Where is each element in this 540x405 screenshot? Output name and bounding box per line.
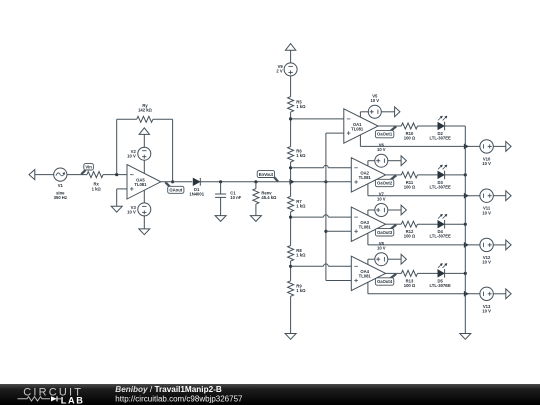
source V5 <box>368 105 381 118</box>
ground <box>139 229 150 235</box>
wire <box>290 162 292 196</box>
wire <box>290 112 292 146</box>
wire OA3 noninverting <box>326 230 351 232</box>
svg-text:LTL-307EE: LTL-307EE <box>430 136 452 141</box>
wire <box>153 118 173 120</box>
wire OA1 noninverting to bus <box>326 132 344 134</box>
node flag Vin <box>81 170 85 174</box>
wire <box>445 272 466 274</box>
source V11 <box>480 189 493 202</box>
wire OA3 V- pin <box>367 233 369 245</box>
wire <box>117 118 137 120</box>
resistor Rx <box>87 172 103 178</box>
svg-text:TL081: TL081 <box>359 175 372 180</box>
source V8 <box>375 253 388 266</box>
ground <box>250 216 261 222</box>
svg-text:V1: V1 <box>58 183 64 188</box>
svg-text:100 Ω: 100 Ω <box>404 283 416 288</box>
svg-text:1 kΩ: 1 kΩ <box>296 253 306 258</box>
LED D2 <box>438 122 445 129</box>
power flag V7 <box>401 205 406 215</box>
wire <box>493 145 506 147</box>
svg-text:10 V: 10 V <box>482 161 491 166</box>
svg-text:10 V: 10 V <box>377 196 386 201</box>
wire OA4 output <box>386 272 402 274</box>
power flag up V9 <box>285 44 295 51</box>
svg-text:142 kΩ: 142 kΩ <box>138 108 152 113</box>
wire <box>445 174 466 176</box>
wire <box>418 223 438 225</box>
wire <box>388 258 401 260</box>
svg-text:OAout: OAout <box>169 187 182 192</box>
node junction Renv <box>254 180 257 183</box>
wire <box>493 195 506 197</box>
svg-text:TL081: TL081 <box>134 182 147 187</box>
svg-text:45.4 kΩ: 45.4 kΩ <box>261 195 277 200</box>
wire <box>67 174 87 176</box>
wire <box>388 160 401 162</box>
wire <box>290 50 292 63</box>
source V13 <box>480 287 493 300</box>
power flag V10 <box>506 142 511 152</box>
source V12 <box>480 238 493 251</box>
svg-text:100 Ω: 100 Ω <box>404 234 416 239</box>
resistor R8 <box>288 246 294 261</box>
capacitor C1 <box>220 182 222 194</box>
LED D5 <box>438 270 445 277</box>
wire <box>143 134 145 147</box>
node junction <box>289 166 292 169</box>
svg-text:EnVout: EnVout <box>259 172 274 177</box>
wire <box>418 174 438 176</box>
op-amp OA2 <box>351 158 385 192</box>
wire feedback to output <box>172 119 174 182</box>
wire OA4 inverting input <box>291 265 324 267</box>
wire OA2 output <box>386 174 402 176</box>
wire OA2 V- pin <box>367 184 369 196</box>
svg-text:OaOut1: OaOut1 <box>377 132 393 137</box>
svg-text:10 V: 10 V <box>127 210 136 215</box>
source V9 <box>284 63 297 76</box>
node junction <box>324 230 327 233</box>
wire OA2 V+ pin <box>367 161 369 166</box>
node junction bus <box>324 180 327 183</box>
wire OA5 output <box>161 181 193 183</box>
source V2 <box>138 147 151 160</box>
wire bus vertical <box>325 133 327 280</box>
wire <box>143 216 145 229</box>
node junction arrow <box>464 193 469 198</box>
ground <box>215 216 226 222</box>
power flag up above V2 <box>139 128 149 135</box>
ground ladder <box>285 334 296 340</box>
node junction arrow EnVout <box>290 179 295 184</box>
resistor R13 <box>401 270 417 276</box>
svg-text:LAB: LAB <box>61 395 85 405</box>
LED D4 <box>438 221 445 228</box>
wire <box>493 293 506 295</box>
node junction <box>171 180 174 183</box>
wire <box>200 181 326 183</box>
resistor R7 <box>288 196 294 211</box>
svg-text:LTL-307EE: LTL-307EE <box>430 234 452 239</box>
wire <box>290 212 292 246</box>
svg-text:10 V: 10 V <box>370 98 379 103</box>
source V7 <box>375 204 388 217</box>
svg-text:10 V: 10 V <box>127 154 136 159</box>
wire OA4 noninverting <box>326 280 351 282</box>
node flag EnVout <box>274 177 278 181</box>
node junction arrow <box>464 291 469 296</box>
svg-text:1 kΩ: 1 kΩ <box>92 186 102 191</box>
svg-text:OaOut4: OaOut4 <box>377 279 393 284</box>
op-amp OA4 <box>351 256 385 290</box>
svg-text:1 kΩ: 1 kΩ <box>296 153 306 158</box>
ground return bus <box>460 334 471 340</box>
resistor R11 <box>401 172 417 178</box>
source V1 sine <box>54 168 67 181</box>
power flag V13 <box>506 289 511 299</box>
svg-text:10 V: 10 V <box>482 210 491 215</box>
node junction <box>289 117 292 120</box>
node flag OAout <box>165 182 170 187</box>
wire <box>381 111 394 113</box>
node junction <box>289 265 292 268</box>
op-amp OA1 <box>344 109 378 143</box>
node junction <box>464 223 467 226</box>
svg-text:100 Ω: 100 Ω <box>404 184 416 189</box>
wire OA3 V+ pin <box>367 210 369 215</box>
wire OA2 inverting input <box>291 167 324 169</box>
wire OA3 output <box>386 223 402 225</box>
svg-text:1 kΩ: 1 kΩ <box>296 203 306 208</box>
resistor R5 <box>288 97 294 112</box>
node junction arrow <box>464 242 469 247</box>
svg-text:10 V: 10 V <box>377 147 386 152</box>
op-amp OA5 <box>127 165 161 199</box>
wire <box>290 261 292 281</box>
svg-text:Vin: Vin <box>85 164 92 169</box>
wire <box>35 174 54 176</box>
svg-text:1 kΩ: 1 kΩ <box>296 104 306 109</box>
svg-text:10 nF: 10 nF <box>230 195 241 200</box>
wire <box>103 174 127 176</box>
node flag OaOut1 <box>391 126 397 130</box>
svg-text:10 V: 10 V <box>377 246 386 251</box>
wire OA1 output <box>378 125 401 127</box>
wire <box>388 209 401 211</box>
svg-text:350 Hz: 350 Hz <box>54 195 67 200</box>
resistor R10 <box>401 123 417 129</box>
node junction <box>464 173 467 176</box>
op-amp OA3 <box>351 207 385 241</box>
svg-text:LTL-307EE: LTL-307EE <box>430 184 452 189</box>
svg-text:10 V: 10 V <box>482 308 491 313</box>
node junction <box>115 173 118 176</box>
svg-text:TL081: TL081 <box>359 225 372 230</box>
source V3 <box>138 203 151 216</box>
power flag V6 <box>401 156 406 166</box>
ground flag left of V1 <box>29 170 35 180</box>
wire OA4 V+ pin <box>367 259 369 264</box>
wire <box>445 125 466 127</box>
svg-text:TL081: TL081 <box>351 126 364 131</box>
wire LED return bus <box>464 126 466 334</box>
wire V2 to OA5 V+ <box>143 160 145 173</box>
wire <box>418 272 438 274</box>
node flag OaOut4 <box>391 274 397 279</box>
node junction <box>289 216 292 219</box>
wire <box>445 223 466 225</box>
wire OA4 V- pin <box>367 282 369 294</box>
resistor R6 <box>288 147 294 162</box>
svg-text:Beniboy / Travail1Manip2-B: Beniboy / Travail1Manip2-B <box>115 385 222 394</box>
resistor Ry <box>137 116 153 122</box>
svg-text:LTL-307EE: LTL-307EE <box>430 283 452 288</box>
wire OA1 V+ pin <box>359 112 361 117</box>
wire <box>290 76 292 97</box>
power flag V12 <box>506 240 511 250</box>
wire to OA2 noninverting <box>326 181 351 183</box>
node flag OaOut2 <box>391 175 397 180</box>
svg-text:http://circuitlab.com/c98wbjp3: http://circuitlab.com/c98wbjp326757 <box>115 395 243 404</box>
node junction C1 <box>219 180 222 183</box>
svg-text:OaOut3: OaOut3 <box>377 230 393 235</box>
svg-text:2 V: 2 V <box>276 69 282 74</box>
source V10 <box>480 140 493 153</box>
power flag V8 <box>401 254 406 264</box>
wire feedback vertical <box>116 119 118 174</box>
node flag OaOut3 <box>391 225 397 230</box>
wire OA1 V- pin <box>359 135 361 147</box>
wire OA1 inverting input <box>291 118 344 120</box>
wire OA3 inverting input <box>291 216 324 218</box>
node junction <box>464 272 467 275</box>
resistor Renv <box>255 182 257 189</box>
svg-text:1 kΩ: 1 kΩ <box>296 288 306 293</box>
wire <box>418 125 438 127</box>
svg-text:TL081: TL081 <box>359 274 372 279</box>
power flag V5 <box>395 107 400 117</box>
resistor R12 <box>401 221 417 227</box>
svg-text:OaOut2: OaOut2 <box>377 181 393 186</box>
wire <box>290 296 292 333</box>
bottom bar <box>0 384 540 405</box>
resistor R9 <box>288 281 294 296</box>
diode D1 <box>193 178 200 185</box>
wire noninverting input <box>117 188 127 190</box>
wire <box>493 244 506 246</box>
wire OA5 V- to V3 <box>143 190 145 203</box>
LED D3 <box>438 171 445 178</box>
power flag V11 <box>506 191 511 201</box>
svg-text:1N4001: 1N4001 <box>189 192 204 197</box>
svg-text:100 Ω: 100 Ω <box>404 136 416 141</box>
node junction arrow <box>464 144 469 149</box>
svg-text:10 V: 10 V <box>482 260 491 265</box>
ground <box>111 206 122 212</box>
source V6 <box>375 154 388 167</box>
